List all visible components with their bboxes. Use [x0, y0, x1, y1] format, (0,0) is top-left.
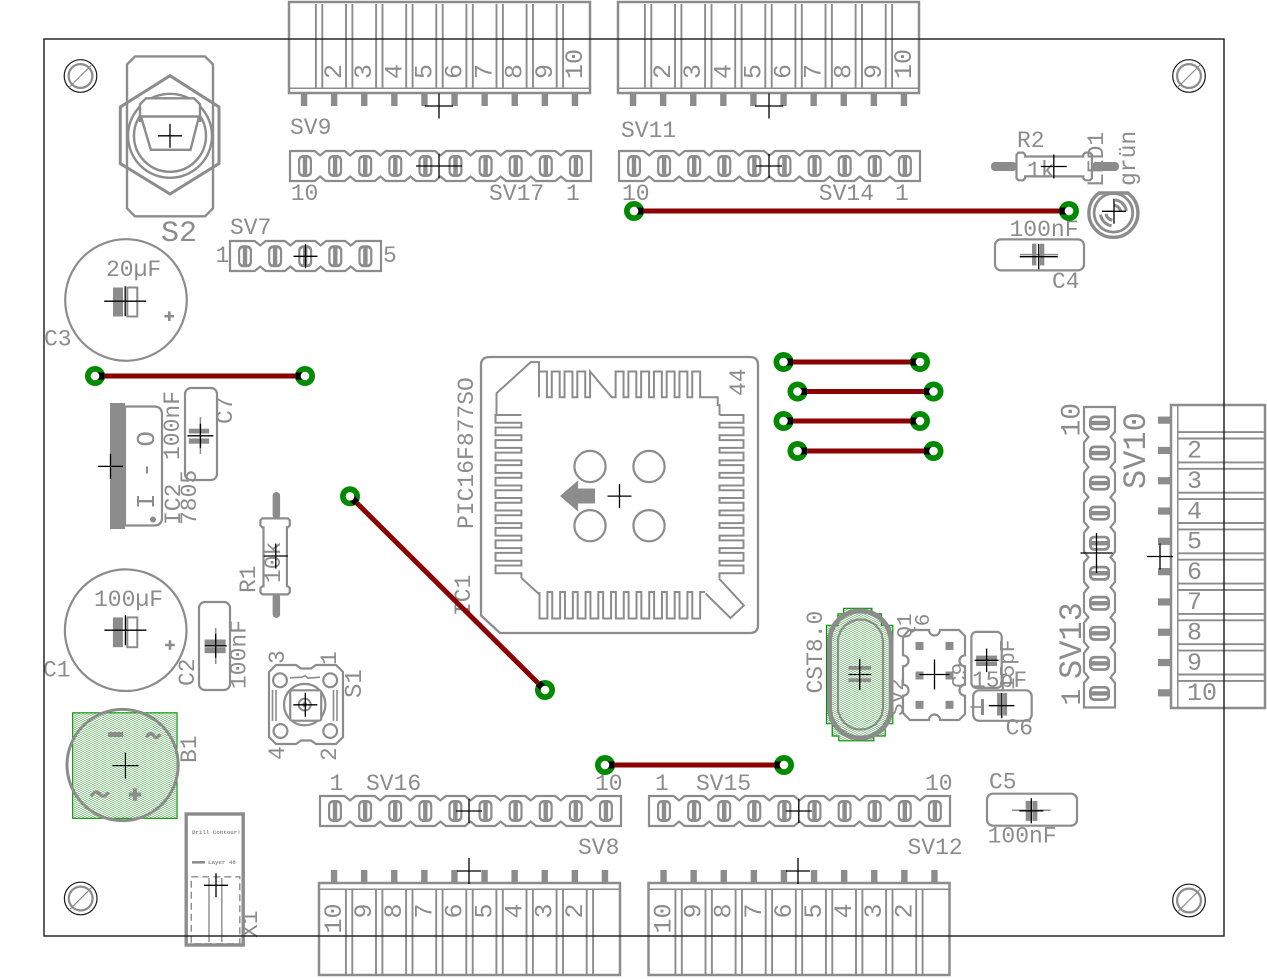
SV14 pad 1 — [898, 155, 912, 177]
wire right of IC1 row 2 — [798, 389, 934, 394]
svg-text:4: 4 — [380, 64, 409, 79]
C4 label — [1052, 269, 1080, 295]
header SV15 outline — [649, 796, 950, 826]
SV13 pad 10 — [1089, 416, 1110, 431]
LED1 — [1089, 193, 1138, 237]
IC socket IC1 PLCC44 outline — [481, 357, 758, 633]
SV17 pad 2 — [539, 155, 553, 177]
SV13 pad 8 — [1089, 476, 1110, 491]
SV2 origin cross — [920, 660, 950, 690]
SV9 label — [290, 115, 331, 141]
svg-text:100nF: 100nF — [227, 620, 253, 689]
via node 6 — [535, 680, 555, 700]
IC1 value PIC16F877SO — [454, 377, 480, 529]
svg-text:1k: 1k — [1027, 158, 1055, 184]
R2 origin cross — [1041, 155, 1067, 179]
svg-text:grün: grün — [1116, 131, 1142, 186]
SV7 pad 3 — [298, 245, 312, 267]
svg-text:C7: C7 — [213, 396, 239, 424]
SV12 label — [908, 835, 963, 861]
svg-text:10: 10 — [650, 904, 679, 934]
SV7 pin5 label — [383, 243, 397, 269]
svg-text:5: 5 — [410, 64, 439, 79]
SV16 pad 9 — [569, 800, 583, 822]
IC2 label — [161, 484, 187, 525]
via node 4 — [1059, 201, 1079, 221]
SV15 pad 5 — [777, 800, 791, 822]
X1 label — [238, 910, 264, 938]
SV17 pad 6 — [418, 155, 432, 177]
svg-text:3: 3 — [531, 904, 560, 919]
SV15 pad 3 — [717, 800, 731, 822]
SV15 pad 9 — [898, 800, 912, 822]
C4 origin cross — [1020, 244, 1058, 269]
svg-text:SV17: SV17 — [489, 181, 544, 207]
crystal Q1 hatched area — [827, 608, 893, 741]
SV11 label — [621, 118, 676, 144]
svg-text:SV9: SV9 — [290, 115, 331, 141]
svg-text:Drill Contour!: Drill Contour! — [192, 829, 241, 836]
svg-text:C9: C9 — [950, 663, 973, 688]
capacitor C4 — [995, 239, 1084, 270]
svg-text:10: 10 — [1058, 403, 1089, 437]
svg-text:6: 6 — [1187, 558, 1202, 587]
SV13 pad 9 — [1089, 446, 1110, 461]
SV16 pad 2 — [358, 800, 372, 822]
IC2 origin cross — [98, 454, 123, 479]
SV13 pad 2 — [1089, 656, 1110, 671]
SV13 origin cross — [1081, 533, 1113, 573]
svg-text:3: 3 — [1187, 467, 1202, 496]
svg-text:S2: S2 — [161, 217, 197, 251]
svg-text:C3: C3 — [44, 327, 72, 353]
C9 origin cross — [975, 649, 999, 673]
SV7 label — [230, 215, 271, 241]
C5 value 100nF — [988, 824, 1057, 850]
S1 origin cross — [293, 693, 317, 717]
svg-text:9: 9 — [860, 64, 889, 79]
SV7 pad 2 — [268, 245, 282, 267]
C4 value 100nF — [1010, 217, 1079, 243]
B1 label — [177, 735, 203, 763]
svg-text:R2: R2 — [1017, 128, 1045, 154]
svg-text:C1: C1 — [43, 658, 71, 684]
SV17 pin10 label — [291, 181, 319, 207]
SV14 pad 7 — [717, 155, 731, 177]
SV13 pad 7 — [1089, 506, 1110, 521]
via row 1 right — [910, 352, 930, 372]
svg-text:C2: C2 — [175, 658, 201, 686]
S1 pin 1 — [317, 651, 343, 665]
svg-text:1: 1 — [566, 181, 580, 207]
svg-text:7: 7 — [740, 904, 769, 919]
wire SV14 to LED1 — [634, 209, 1069, 214]
svg-text:SV14: SV14 — [819, 181, 874, 207]
connector SV12 box — [649, 870, 950, 975]
svg-text:6: 6 — [441, 64, 470, 79]
svg-text:9: 9 — [350, 904, 379, 919]
svg-text:7: 7 — [471, 64, 500, 79]
SV2 pin Q1 label — [895, 613, 918, 638]
via node 5 — [340, 486, 360, 506]
S2 origin cross — [158, 124, 182, 148]
header SV13 outline — [1084, 407, 1115, 708]
svg-text:5: 5 — [800, 904, 829, 919]
B1 origin cross — [112, 753, 138, 779]
IC1 label — [451, 575, 477, 616]
SV16 label — [366, 771, 421, 797]
SV7 pad 1 — [238, 245, 252, 267]
via row 4 right — [924, 441, 944, 461]
LED1 label — [1084, 132, 1110, 187]
via node 7 — [595, 755, 615, 775]
svg-text:1: 1 — [330, 771, 344, 797]
SV13 pad 6 — [1089, 536, 1110, 551]
svg-text:6: 6 — [770, 904, 799, 919]
svg-text:SV7: SV7 — [230, 215, 271, 241]
SV15 pad 1 — [657, 800, 671, 822]
svg-text:1: 1 — [1058, 689, 1089, 706]
header SV14 outline — [619, 151, 920, 181]
C7 origin cross — [187, 424, 213, 448]
SV15 pin1 label — [655, 771, 669, 797]
C5 label — [989, 770, 1017, 796]
Q1 value CST8.0 — [803, 611, 829, 694]
SV15 pad 10 — [928, 800, 942, 822]
svg-text:2: 2 — [561, 904, 590, 919]
svg-text:8: 8 — [380, 904, 409, 919]
SV13 pad 3 — [1089, 626, 1110, 641]
svg-text:10: 10 — [925, 771, 953, 797]
svg-text:2: 2 — [317, 747, 343, 761]
connector SV8 box — [319, 870, 620, 975]
wire right of IC1 row 4 — [798, 449, 934, 454]
svg-text:3: 3 — [350, 64, 379, 79]
header SV7 outline — [230, 241, 381, 271]
SV15 pad 6 — [808, 800, 822, 822]
SV16 pad 10 — [599, 800, 613, 822]
svg-text:9: 9 — [1187, 649, 1202, 678]
mounting hole — [1173, 60, 1206, 93]
via row 3 left — [774, 411, 794, 431]
SV2 label — [887, 678, 910, 716]
SV15 pad 7 — [838, 800, 852, 822]
connector X1 — [186, 814, 243, 945]
mounting hole — [1173, 884, 1206, 917]
C6 label — [1006, 716, 1034, 742]
SV16 pad 3 — [388, 800, 402, 822]
SV17 origin cross — [416, 154, 462, 178]
via row 2 right — [924, 382, 944, 402]
C3 value 20uF — [106, 257, 161, 283]
svg-text:8: 8 — [830, 64, 859, 79]
C5 origin cross — [1019, 798, 1043, 823]
C2 origin cross — [205, 634, 227, 658]
SV16 origin cross — [456, 799, 482, 823]
C3 origin cross — [104, 286, 146, 316]
SV16 pad 1 — [328, 800, 342, 822]
svg-text:2: 2 — [649, 64, 678, 79]
svg-text:2: 2 — [320, 64, 349, 79]
svg-text:1: 1 — [655, 771, 669, 797]
battery B1 hatched area — [73, 713, 177, 819]
SV12 origin cross — [786, 858, 810, 884]
header SV16 outline — [320, 796, 621, 826]
SV13 pin10 label — [1058, 403, 1089, 437]
SV11 origin cross — [755, 94, 783, 119]
svg-text:C4: C4 — [1052, 269, 1080, 295]
IC2 value 7805 — [177, 470, 203, 525]
svg-text:6: 6 — [770, 64, 799, 79]
S1 pin 3 — [265, 650, 291, 664]
connector SV10 box — [1158, 405, 1265, 708]
wire right of IC1 row 1 — [784, 360, 921, 365]
svg-text:1: 1 — [895, 181, 909, 207]
crystal Q1 body — [830, 611, 892, 738]
svg-text:SV10: SV10 — [1118, 412, 1155, 489]
svg-text:7: 7 — [800, 64, 829, 79]
svg-text:PIC16F877SO: PIC16F877SO — [454, 377, 480, 529]
C1 origin cross — [104, 615, 146, 645]
connector SV9 box — [289, 2, 590, 106]
R2 value 1k — [1027, 158, 1055, 184]
capacitor C9 — [971, 632, 1001, 688]
power jack S2 — [120, 56, 219, 216]
IC1 pin44 label — [726, 368, 752, 396]
capacitor C5 — [987, 794, 1077, 826]
SV14 pad 9 — [657, 155, 671, 177]
SV14 pad 2 — [868, 155, 882, 177]
SV10 origin cross — [1147, 544, 1173, 570]
SV17 pin1 label — [566, 181, 580, 207]
svg-text:7: 7 — [1187, 588, 1202, 617]
svg-text:3: 3 — [679, 64, 708, 79]
wire right of IC1 row 3 — [784, 419, 921, 424]
SV17 pad 1 — [569, 155, 583, 177]
svg-text:B1: B1 — [177, 735, 203, 763]
capacitor C1 — [65, 569, 187, 691]
svg-text:3: 3 — [265, 650, 291, 664]
svg-text:6: 6 — [913, 614, 936, 627]
C3 label — [44, 327, 72, 353]
SV16 pad 8 — [539, 800, 553, 822]
SV17 pad 5 — [449, 155, 463, 177]
SV14 pad 8 — [687, 155, 701, 177]
SV13 pad 5 — [1089, 566, 1110, 581]
svg-text:10: 10 — [595, 771, 623, 797]
svg-text:5: 5 — [1187, 528, 1202, 557]
svg-text:8: 8 — [1187, 618, 1202, 647]
C1 label — [43, 658, 71, 684]
mounting hole — [64, 882, 97, 915]
svg-text:3: 3 — [860, 904, 889, 919]
SV14 pad 5 — [778, 155, 792, 177]
svg-text:100µF: 100µF — [94, 587, 163, 613]
SV16 pin10 label — [595, 771, 623, 797]
X1 origin cross — [204, 873, 228, 897]
SV7 pad 4 — [328, 245, 342, 267]
SV13 label — [1054, 602, 1091, 679]
capacitor C2 — [199, 602, 230, 690]
IC1 origin cross — [608, 484, 632, 508]
svg-text:10: 10 — [890, 49, 919, 79]
SV17 pad 9 — [328, 155, 342, 177]
svg-text:44: 44 — [726, 368, 752, 396]
svg-text:4: 4 — [830, 904, 859, 919]
C2 label — [175, 658, 201, 686]
svg-text:10: 10 — [561, 49, 590, 79]
svg-text:SV15: SV15 — [696, 771, 751, 797]
svg-text:2: 2 — [1187, 437, 1202, 466]
svg-text:Layer 48: Layer 48 — [208, 859, 236, 866]
via node 8 — [774, 755, 794, 775]
C6 origin cross — [989, 693, 1014, 718]
svg-text:SV8: SV8 — [578, 835, 619, 861]
C2 value 100nF — [227, 620, 253, 689]
SV15 pad 2 — [687, 800, 701, 822]
C9 value 15pF — [972, 668, 1027, 694]
svg-text:20µF: 20µF — [106, 257, 161, 283]
SV17 pad 10 — [298, 155, 312, 177]
svg-text:1: 1 — [216, 243, 230, 269]
SV15 pin10 label — [925, 771, 953, 797]
LED1 origin cross — [1102, 199, 1126, 224]
svg-text:10: 10 — [1187, 679, 1217, 708]
SV2 pin6 label — [913, 614, 936, 627]
C7 label — [213, 396, 239, 424]
via node 2 — [295, 366, 315, 386]
svg-text:6: 6 — [440, 904, 469, 919]
R1 origin cross — [264, 544, 288, 569]
SV17 pad 7 — [388, 155, 402, 177]
via row 2 left — [788, 382, 808, 402]
R1 value 10k — [261, 542, 287, 583]
svg-text:S1: S1 — [342, 669, 369, 698]
S1 label — [342, 669, 369, 698]
svg-text:4: 4 — [1187, 497, 1202, 526]
Q1 origin cross — [848, 659, 871, 690]
S2 label — [161, 217, 197, 251]
SV14 pad 3 — [838, 155, 852, 177]
SV7 pad 5 — [358, 245, 372, 267]
svg-text:10: 10 — [320, 904, 349, 934]
via row 3 right — [910, 411, 930, 431]
svg-text:C5: C5 — [989, 770, 1017, 796]
svg-text:5: 5 — [383, 243, 397, 269]
SV14 pin1 label — [895, 181, 909, 207]
wire diagonal R1 to bottom — [350, 496, 545, 690]
svg-text:I - O: I - O — [132, 431, 162, 509]
SV17 pad 4 — [479, 155, 493, 177]
SV15 pad 8 — [868, 800, 882, 822]
svg-text:X1: X1 — [238, 910, 264, 938]
R2 label — [1017, 128, 1045, 154]
via row 4 left — [788, 441, 808, 461]
SV15 origin cross — [786, 799, 812, 823]
SV7 pin1 label — [216, 243, 230, 269]
C6 value 15pF rotated — [998, 640, 1021, 690]
capacitor C7 — [185, 388, 217, 480]
header SV2 — [903, 630, 965, 720]
SV10 label — [1118, 412, 1155, 489]
svg-text:4: 4 — [265, 746, 291, 760]
SV16 pad 6 — [479, 800, 493, 822]
regulator IC2 — [110, 403, 162, 529]
SV17 pad 8 — [358, 155, 372, 177]
svg-text:SV13: SV13 — [1054, 602, 1091, 679]
SV8 origin cross — [457, 858, 481, 884]
wire bottom middle — [605, 763, 784, 768]
via node 1 — [85, 366, 105, 386]
header SV17 outline — [290, 151, 591, 181]
capacitor C6 — [971, 690, 1032, 721]
capacitor C3 — [65, 239, 187, 361]
SV9 origin cross — [425, 94, 453, 119]
SV15 pad 4 — [747, 800, 761, 822]
svg-text:SV16: SV16 — [366, 771, 421, 797]
svg-text:9: 9 — [680, 904, 709, 919]
SV15 label — [696, 771, 751, 797]
SV14 origin cross — [756, 154, 782, 178]
mounting hole — [64, 60, 97, 93]
svg-text:8: 8 — [501, 64, 530, 79]
SV14 pin10 label — [622, 181, 650, 207]
SV8 label — [578, 835, 619, 861]
svg-text:C6: C6 — [1006, 716, 1034, 742]
svg-text:100nF: 100nF — [160, 391, 186, 460]
svg-text:15pF: 15pF — [998, 640, 1021, 690]
svg-text:10k: 10k — [261, 542, 287, 583]
SV16 pad 5 — [448, 800, 462, 822]
svg-text:9: 9 — [531, 64, 560, 79]
via node 3 — [624, 201, 644, 221]
svg-text:4: 4 — [501, 904, 530, 919]
switch S1 — [269, 665, 343, 744]
SV16 pad 4 — [418, 800, 432, 822]
svg-text:R1: R1 — [236, 565, 262, 593]
svg-text:100nF: 100nF — [988, 824, 1057, 850]
svg-text:7: 7 — [410, 904, 439, 919]
svg-text:8: 8 — [710, 904, 739, 919]
svg-text:4: 4 — [709, 64, 738, 79]
svg-text:SV11: SV11 — [621, 118, 676, 144]
svg-text:5: 5 — [471, 904, 500, 919]
svg-text:10: 10 — [291, 181, 319, 207]
SV14 pad 10 — [627, 155, 641, 177]
S1 pin 4 — [265, 746, 291, 760]
S1 pin 2 — [317, 747, 343, 761]
svg-text:SV12: SV12 — [908, 835, 963, 861]
connector SV11 box — [618, 2, 919, 106]
C9 label — [950, 663, 973, 688]
SV14 pad 4 — [808, 155, 822, 177]
wire C3 to C7 area — [95, 374, 305, 379]
svg-text:5: 5 — [739, 64, 768, 79]
SV14 label — [819, 181, 874, 207]
svg-text:LED1: LED1 — [1084, 132, 1110, 187]
SV16 pad 7 — [509, 800, 523, 822]
SV13 pin1 label — [1058, 689, 1089, 706]
svg-text:SV2: SV2 — [887, 678, 910, 716]
svg-text:1: 1 — [317, 651, 343, 665]
SV14 pad 6 — [747, 155, 761, 177]
SV17 label — [489, 181, 544, 207]
svg-text:7805: 7805 — [177, 470, 203, 525]
svg-text:CST8.0: CST8.0 — [803, 611, 829, 694]
SV16 pin1 label — [330, 771, 344, 797]
SV13 pad 4 — [1089, 596, 1110, 611]
battery B1 — [67, 709, 178, 820]
